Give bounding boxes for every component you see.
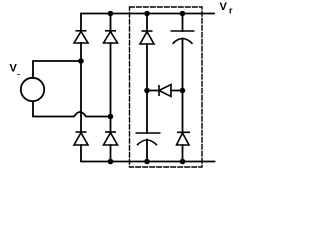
node top rail junction dot at branch 3 (144, 11, 150, 17)
capacitor C2 (branch 3 bottom inside box) (136, 133, 161, 145)
svg-text:r: r (229, 6, 233, 16)
diode D6 (horizontal between mid nodes, pointing left) (159, 85, 171, 97)
node D junction dot (branch 4 mid) (180, 88, 186, 94)
wire mid horizontal between node C and node D (147, 90, 183, 92)
diode D2 (branch 2 top, pointing up) (104, 31, 118, 43)
wire bottom rail (81, 145, 215, 162)
node A junction dot (source top to branch 1) (78, 58, 84, 64)
wire top rail (81, 14, 214, 32)
wire branch 1 middle (80, 43, 82, 132)
capacitor C1 (branch 4 top inside box) (171, 31, 195, 44)
diode D4 (branch 2 bottom, pointing up) (104, 132, 118, 145)
diode D3 (branch 1 bottom, pointing up) (74, 132, 88, 145)
node B junction dot (source bottom to branch 2) (108, 114, 114, 120)
wire branch 3 (146, 14, 148, 162)
node bottom rail junction dot at branch 4 (180, 159, 186, 165)
wire branch 4 (182, 14, 184, 162)
diode D1 (branch 1 top, pointing up) (74, 31, 88, 43)
svg-text:V: V (220, 1, 228, 13)
node bottom rail junction dot at branch 3 (144, 159, 150, 165)
diode D7 (branch 4 bottom inside box, pointing up) (177, 132, 191, 145)
wire source top lead (33, 61, 81, 78)
wire branch 2 (110, 14, 112, 162)
voltage source V~ (21, 78, 44, 101)
node top rail junction dot at branch 4 (180, 11, 186, 17)
node bottom rail junction dot at branch 2 (108, 159, 114, 165)
node top rail junction dot at branch 2 (108, 11, 114, 17)
dashed enclosure box (130, 7, 203, 167)
wire source bottom lead with hop over branch 1 (33, 102, 111, 117)
svg-text:~: ~ (17, 72, 21, 79)
diode D5 (branch 3 top inside box, pointing up) (140, 31, 154, 44)
node C junction dot (branch 3 mid) (144, 88, 150, 94)
